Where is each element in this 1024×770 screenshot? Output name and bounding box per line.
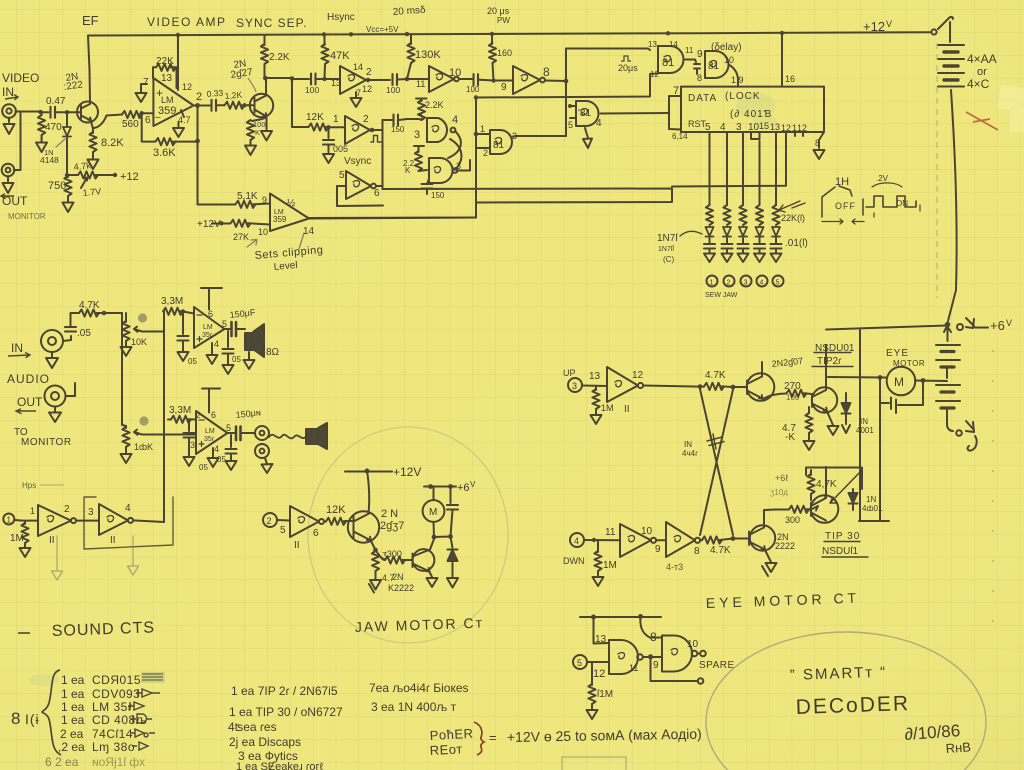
resistor 4.7K eye vert [808,407,810,413]
ground 100K [245,143,256,155]
svg-text:4ʦea ɾeѕ: 4ʦea ɾeѕ [228,720,277,734]
wire pin12 loop [672,136,786,187]
node blob a [138,313,147,322]
resistor pot 10K b [125,426,127,428]
wire wiper to 164 [142,331,164,333]
speaker SP1 [245,324,264,357]
svg-text:6: 6 [145,115,151,126]
wire Q5 collector up [761,362,763,377]
svg-text:IN: IN [11,341,23,355]
svg-text:8: 8 [11,709,20,728]
svg-text:160: 160 [497,48,512,58]
svg-text:10: 10 [258,227,268,237]
svg-text:9: 9 [697,49,703,60]
svg-text:PоћER: PоћER [429,726,473,743]
gate U4a NAND [427,118,447,142]
wiper arrow pot [81,178,87,189]
svg-text:0.47: 0.47 [46,96,66,107]
svg-text:TIP2ɾ: TIP2ɾ [817,356,842,367]
node spare [591,614,643,620]
node 4.7K [102,311,107,316]
wire U3 out [545,80,566,83]
svg-text:+12V: +12V [197,219,221,230]
svg-text:1: 1 [7,516,12,525]
svg-text:2: 2 [196,411,201,420]
svg-text:MONITOR: MONITOR [8,212,46,221]
wire gateB out [457,160,470,171]
gate U4b NAND [429,158,453,183]
capacitor .005 [328,127,330,138]
svg-text:K: K [405,166,411,175]
ground Q4 [427,572,438,587]
node blob b [139,416,148,425]
resistor 270 [787,390,807,397]
wire U5a out [513,135,566,138]
svg-text:4.7K: 4.7K [705,370,726,381]
svg-text:​II: ​II [110,535,116,546]
wire U2c out up [372,120,383,189]
svg-text:1: 1 [480,124,485,134]
capacitor 150uF b [236,427,241,441]
wire U12b-U12c [656,539,666,541]
connector J4 audio out [45,386,66,407]
svg-text:270: 270 [784,381,801,392]
symbol .2V bracket [872,183,902,187]
ground speaker [244,352,255,369]
svg-text:NSDUſ1: NSDUſ1 [822,546,859,557]
wire top +12V rail [88,32,930,35]
svg-text:13: 13 [770,122,780,132]
wire wiper b to amp [142,434,196,436]
svg-text:MOTOR: MOTOR [893,359,925,368]
svg-text:1 ea: 1 ea [61,713,85,727]
svg-text:(δelay): (δelay) [711,42,742,53]
svg-text:LM 35ɾ: LM 35ɾ [92,700,132,714]
wire U1 small 4.7 stub [181,110,184,117]
svg-text:12: 12 [593,668,605,680]
wire spare top rail [580,616,661,618]
svg-text:NSDU01: NSDU01 [815,343,855,354]
svg-text:05: 05 [199,463,208,472]
connector circled3 up [568,378,582,392]
wiper pot b [134,430,142,435]
symbol row2 [136,689,160,697]
node eye c [731,536,736,541]
connector circled5 spare [573,655,587,669]
wire top to gate13 [566,49,650,51]
svg-text:10: 10 [687,639,699,650]
svg-text:LM: LM [205,428,215,435]
svg-text:20 μs: 20 μs [487,6,510,16]
wire Q5 emitter right [763,394,787,400]
svg-text:7еа љо4і4ɾ Біокеѕ: 7еа љо4і4ɾ Біокеѕ [369,681,469,695]
svg-text:REот: REот [429,741,463,758]
svg-text:4: 4 [125,503,131,514]
svg-text:13: 13 [595,634,607,645]
svg-text:1 ea TIP 30 / оN6727: 1 ea TIP 30 / оN6727 [229,705,343,719]
resistor 130K [410,34,412,44]
svg-text:8: 8 [694,546,700,557]
wire motor bottom [434,522,451,537]
wire U10a-U10b [76,520,99,522]
ground 470 [36,139,47,152]
node U2c out [370,128,375,133]
svg-text:SEW JAW: SEW JAW [705,292,738,299]
inverter U11 jaw [290,506,319,537]
svg-text:359: 359 [273,215,287,224]
wire X cross a [700,389,733,535]
transistor Q7 2N2222 eye [750,525,775,550]
capacitor 0.47 [41,111,49,113]
symbol 1H tent [822,186,852,197]
symbol row5 [131,729,155,737]
svg-text:SPARE: SPARE [699,660,735,671]
ground jack [262,458,273,473]
svg-text:81: 81 [493,140,505,151]
capacitor 100 c [474,74,479,85]
motor M1 jaw [423,500,445,522]
svg-text:EYE: EYE [886,348,909,359]
svg-text:5: 5 [226,423,231,433]
wire U10b out [133,520,164,522]
svg-text:3: 3 [572,381,577,391]
wire delay out [729,65,739,87]
ground Q7 emitter [762,550,777,576]
wire U12a out [643,386,700,387]
svg-text:MONITOR: MONITOR [21,437,72,448]
wire U2b out to cap [459,78,472,80]
symbol row3 [128,702,144,710]
inverter U12c down [666,522,695,557]
svg-text:14: 14 [303,226,315,237]
wire pin7 bracket [669,96,681,130]
wire Q4 collector [430,539,434,550]
ground .05 out a [223,363,234,374]
svg-text:+12: +12 [120,171,139,183]
ground 4.7 jaw [369,577,381,593]
node 3.6K [195,139,200,144]
node down [592,538,596,542]
ground pot b [121,452,132,463]
svg-text:6: 6 [208,309,213,319]
resistor 1M sound a [24,522,26,524]
capacitor .05 out b [230,435,232,447]
diode 1N4001 b [852,489,854,493]
battery B1 4xAA [938,22,964,87]
gate U6a NAND 13-12-11 [658,46,683,73]
svg-text:8: 8 [543,65,550,79]
wire vert 164 sound [163,312,165,523]
wire pin8 gnd [819,132,824,148]
node 160 [491,78,495,82]
transistor Q4 2N2222 jaw [413,549,435,571]
wire pin16 drop [781,33,783,87]
wire long 97 [476,74,658,98]
svg-text:8: 8 [697,73,702,83]
svg-text:1 ea: 1 ea [61,687,85,701]
svg-text:12: 12 [797,123,807,133]
svg-text:9: 9 [262,195,267,205]
node 476 [474,95,479,136]
svg-text:560: 560 [122,119,139,130]
node U3 out [564,79,569,84]
wire to Q5 base [733,386,747,388]
svg-text:4.7K: 4.7K [710,545,731,556]
node eye a [698,384,703,389]
wire NSDU01 underlines [812,353,853,367]
wire +12 stub [212,223,230,225]
svg-text:+6ℓ: +6ℓ [775,473,789,483]
svg-text:1H: 1H [835,176,849,188]
svg-text:3.6K: 3.6K [153,147,176,159]
wire pencil pointer 4148 [56,139,65,147]
node 560 out [140,111,144,115]
svg-text:V​sync: V​sync [344,156,371,167]
svg-text:10K: 10K [131,337,147,347]
resistor 470 [41,113,43,116]
transistor Q6 TIP29 [812,387,837,412]
svg-text:UP: UP [563,368,576,378]
ground U9b pin4 [208,448,219,467]
capacitor chain .01 x5 [710,238,777,243]
connector J2 video out [2,164,15,177]
wire smarty oval [706,632,986,770]
svg-text:1M: 1M [601,403,614,413]
switch S3 below battery [947,424,953,431]
svg-text:11: 11 [629,663,638,673]
svg-text:13: 13 [161,73,173,84]
wire U9b out [228,432,236,434]
resistor 5.1K [232,204,235,206]
wire sync input drop [291,79,293,128]
svg-text:4001: 4001 [856,426,874,435]
svg-text:OFF: OFF [835,201,856,211]
svg-text:AUDIO: AUDIO [7,372,50,386]
svg-text:1 ea: 1 ea [61,700,85,714]
wire U9a out [225,328,232,330]
capacitor 150uF a [232,322,237,336]
svg-text:22K(ſ): 22K(ſ) [781,213,805,223]
svg-text:V: V [1006,318,1012,328]
svg-text:150: 150 [431,191,445,200]
svg-text:005: 005 [333,144,348,154]
ground 4.7K eye [804,439,815,450]
switch S2 +6V [957,324,963,330]
diode 1N4148 [66,112,68,126]
inverter U2c vsync [345,116,370,144]
svg-text:–: – [155,112,161,123]
resistor 8.2K [92,129,94,133]
wire collector drop jaw [367,471,369,512]
svg-text:2: 2 [727,280,731,287]
svg-text:9: 9 [653,660,659,671]
svg-text:3 еа 1N 400љ т: 3 еа 1N 400љ т [371,700,457,714]
svg-text:II: II [294,540,300,551]
svg-text:M: M [429,507,437,518]
svg-text:3,3M: 3,3M [169,405,191,416]
wire pencil sets-clipping pointer [247,233,304,249]
svg-text:13: 13 [589,371,601,382]
resistor 4.7K eye b [700,539,702,541]
wire J4 link [66,383,76,396]
wire motor left [828,376,887,379]
svg-text:+12V ө 25 to ѕомА (мах Аодіо): +12V ө 25 to ѕомА (мах Аодіо) [507,726,702,745]
wire pencil dashed right [936,43,938,298]
ground 750 [63,199,74,212]
node circled outputs 1-5 [707,276,718,287]
op-amp U9b LM358 [196,411,228,454]
svg-text:3: 3 [456,161,461,171]
resistor 47K [324,34,326,45]
svg-text:½: ½ [287,198,296,209]
svg-text:12: 12 [650,70,659,79]
svg-text:11: 11 [605,527,616,538]
svg-text:12: 12 [182,82,192,92]
ground .05 a2 [178,350,189,361]
svg-text:SYNC SEP.: SYNC SEP. [236,16,307,30]
inverter U12a up [607,367,638,402]
ground J4 [49,407,61,423]
svg-text:1M: 1M [603,560,617,571]
svg-text:LM: LM [161,95,174,105]
resistor 750 [67,175,68,177]
svg-text:1,9: 1,9 [731,75,744,85]
svg-text:IN: IN [860,417,868,426]
resistor 160 [491,34,493,44]
svg-text:V: V [470,480,476,489]
svg-text:8.2K: 8.2K [101,137,124,149]
node Q2 collector [263,76,268,81]
wire vert 476 [475,98,477,218]
wire eye verticals right [859,330,889,521]
svg-text:5,1K: 5,1K [237,191,258,202]
node jaw rail [428,484,453,539]
svg-text:ʒ10д: ʒ10д [770,488,788,497]
svg-text:6,14: 6,14 [672,132,688,141]
ground J2 [3,177,14,193]
svg-text:8Ω: 8Ω [266,347,280,358]
gate U13b NAND spare [662,636,692,672]
node 3.3M a [181,309,185,313]
resistor 100K emitter [252,117,267,121]
svg-text:6: 6 [313,528,319,539]
symbol row1 highlighted [141,672,165,683]
symbol row4 [131,714,152,723]
capacitor jaw [450,487,452,504]
svg-text:​12: ​12 [362,84,372,94]
resistor 2.2K gateA [416,99,427,102]
svg-text:VIDEO: VIDEO [2,71,39,85]
svg-text:2.2K: 2.2K [425,100,444,110]
resistor 3.6K feedback [142,113,155,141]
resistor 3.3M a [163,312,165,314]
resistor 4.7K eye c [810,470,812,475]
svg-text:3: 3 [88,507,94,518]
svg-text:22K: 22K [156,56,174,67]
svg-text:K2222: K2222 [388,583,414,593]
svg-text:,2 ea: ,2 ea [58,740,85,754]
wire red scratch [966,112,998,130]
svg-text:5: 5 [568,120,573,130]
wire spare loop [651,657,699,681]
svg-text:10: 10 [724,55,734,65]
wire pencil stubs sound [52,536,139,580]
svg-text:100: 100 [305,85,319,95]
svg-text:470: 470 [45,122,62,133]
wire cord coil [269,435,306,439]
label pulse 20us [621,56,631,61]
capacitor .05 out a [227,331,229,347]
svg-text:4,7K: 4,7K [816,479,837,490]
resistor 1.2K [225,102,245,109]
svg-text:20μs: 20μs [618,63,638,73]
gate U5b NAND pins5-6-4 [570,106,576,118]
svg-text:1.7V: 1.7V [82,186,101,198]
svg-text:20 msδ: 20 msδ [392,5,426,18]
capacitor 150 [394,115,399,126]
wire U2d out [376,185,383,187]
diode jaw [451,537,453,549]
inverter U12b down [620,524,651,557]
resistor 560 [122,111,142,118]
node coupling [290,76,410,82]
svg-text:(∂ 401Ɓ: (∂ 401Ɓ [730,109,772,120]
wire to Q7 base [733,538,749,540]
svg-text:(LOCK: (LOCK [725,91,761,102]
svg-text:2: 2 [363,114,369,125]
wire J3 up to cap [63,336,71,341]
svg-text:47K: 47K [330,50,350,62]
svg-text:1 ea: 1 ea [61,673,85,687]
svg-text:ſ1M: ſ1M [597,689,613,700]
wire Q8 collector rail [825,467,826,499]
svg-text:3,3M: 3,3M [161,296,183,307]
symbol row6 [132,742,148,750]
svg-text:5: 5 [577,658,582,668]
wire output long drop [197,106,199,205]
wire J1-J2 link [14,112,21,171]
svg-text:8: 8 [815,138,820,148]
resistor pot 4.7k [67,174,77,176]
svg-text:750: 750 [48,180,66,192]
resistor 4.7 jaw [372,551,379,571]
svg-text:5: 5 [776,280,780,287]
capacitor 150 gateB [427,179,429,184]
resistor 4.7K audio [71,312,79,314]
wire U5b out to 4015 pin7 [601,112,670,115]
svg-text:7: 7 [673,85,679,97]
svg-text:CDЯ015: CDЯ015 [92,673,141,687]
svg-text:ɴоЯɉ1ſ фх: ɴоЯɉ1ſ фх [92,755,145,769]
svg-text:300: 300 [785,515,800,525]
ground U5b arrow [583,128,592,148]
svg-text:0.33: 0.33 [206,88,224,99]
svg-text:150: 150 [391,125,405,134]
ground .05 b2 [184,455,195,466]
svg-text:14: 14 [669,40,678,49]
transistor Q2 2N2222 [250,94,273,117]
svg-text:7: 7 [356,88,361,98]
node Q3 emitter [373,548,378,553]
node rail junction dots [176,31,784,37]
symbol pulse vsync [371,136,381,143]
resistor 12K [292,126,308,128]
ground U9a pin4 [207,343,218,364]
transistor Q8 TIP30 [811,495,839,523]
gate U6b NAND delay [705,51,728,78]
svg-text:ʒ300: ʒ300 [382,549,402,559]
svg-text:2ɠʒ7: 2ɠʒ7 [380,520,404,532]
